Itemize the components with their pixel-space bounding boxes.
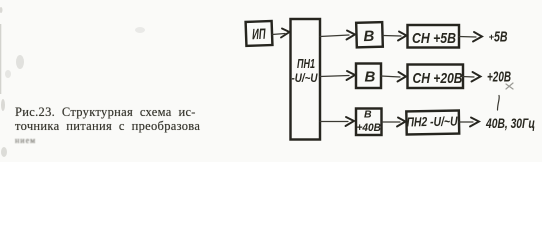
svg-text:В: В [365,69,376,86]
svg-text:СН +20В: СН +20В [413,70,463,87]
svg-text:ИП: ИП [252,26,267,43]
svg-text:40В, 30Гц: 40В, 30Гц [485,116,535,131]
svg-text:В: В [364,109,372,121]
svg-text:-U/~U: -U/~U [292,73,319,85]
svg-text:+40В: +40В [357,122,382,134]
svg-text:В: В [363,28,374,45]
svg-text:СН +5В: СН +5В [412,30,456,47]
svg-text:+20В: +20В [487,69,511,86]
svg-text:5В: 5В [494,30,508,46]
svg-text:ПН2 -U/~U: ПН2 -U/~U [406,114,458,130]
svg-text:ПН1: ПН1 [297,57,315,71]
